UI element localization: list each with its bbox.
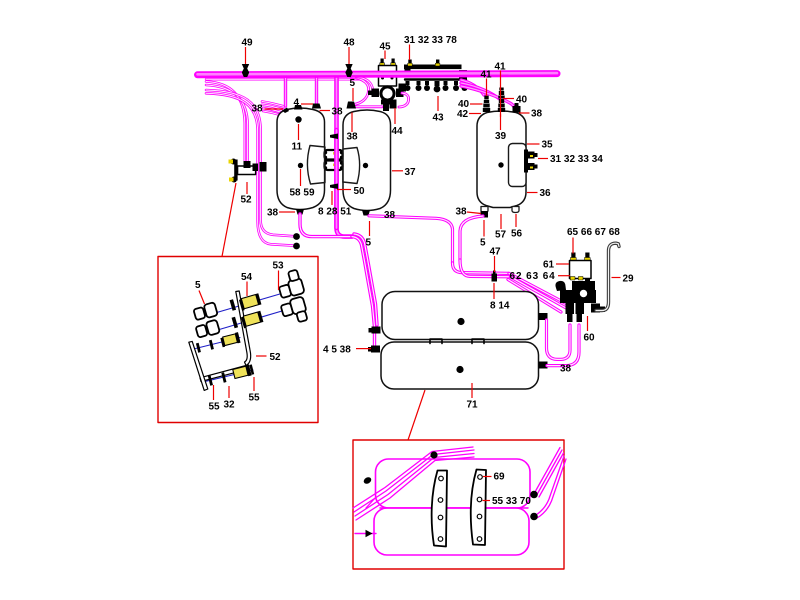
svg-text:5: 5 — [195, 280, 201, 291]
leader i2-55-33-70 — [483, 500, 491, 502]
leader 8-28-51 — [331, 191, 333, 205]
tank 71 lower — [381, 342, 539, 389]
leader 61 — [556, 263, 569, 265]
tank 11 (left reservoir) — [277, 108, 325, 210]
fitting right upper — [530, 491, 538, 499]
svg-text:38: 38 — [267, 208, 279, 219]
svg-text:5: 5 — [480, 238, 486, 249]
LEADERS — [199, 45, 621, 501]
wire curl tube from valve 45 right port — [399, 93, 409, 107]
blue axis A3 — [192, 338, 241, 350]
svg-text:38: 38 — [347, 132, 359, 143]
pipe clamp 48 — [345, 64, 352, 77]
leader 38 tank11 right — [320, 110, 331, 112]
blue axis A1 — [198, 293, 285, 319]
svg-text:37: 37 — [405, 167, 417, 178]
leader 58 — [300, 169, 302, 186]
fitting cluster 31-34 on plate — [524, 150, 538, 173]
wire central tube between tanks down to bottom run — [337, 78, 353, 237]
leader 38 tank39 bottom — [467, 212, 481, 214]
fitting tank 39 bottom-left port — [481, 211, 489, 218]
leader to inset2 — [408, 390, 425, 440]
wire under-pipe thin tube run — [206, 78, 362, 80]
svg-text:49: 49 — [242, 38, 254, 49]
svg-text:32: 32 — [224, 400, 236, 411]
wire under-pipe tube to valve 45 left port — [356, 77, 373, 92]
fitting on left bundle — [363, 476, 373, 485]
clips between tanks 71 — [430, 339, 484, 344]
fitting on tank 37 top left (5/38) — [347, 102, 357, 109]
tee fitting 53 lower — [280, 296, 309, 326]
wire short tube across tank B top — [353, 105, 382, 108]
fitting 38 on tank 39 top right — [513, 103, 521, 113]
svg-text:35: 35 — [542, 140, 554, 151]
svg-text:58 59: 58 59 — [290, 188, 315, 199]
strap 69 right — [471, 470, 486, 546]
leader 49 — [245, 47, 247, 64]
leader 50 — [337, 189, 351, 191]
leader i1-55L — [213, 385, 215, 400]
svg-text:38: 38 — [252, 104, 264, 115]
svg-text:31 32 33 78: 31 32 33 78 — [404, 35, 457, 46]
bracket channel edge — [200, 366, 248, 382]
leader i1-54 — [246, 282, 248, 297]
svg-text:38: 38 — [560, 364, 572, 375]
manifold 43 — [404, 60, 467, 81]
rings and sleeve on axis A4 — [208, 364, 255, 386]
leader 36 — [527, 192, 538, 194]
wire tank 39 bottom tube sweeping down-left — [460, 216, 483, 260]
wire left stub tube with cap — [355, 533, 376, 535]
svg-text:38: 38 — [456, 207, 468, 218]
fitting tank 71 lower left — [368, 346, 380, 353]
leader i2-69 — [483, 476, 492, 478]
svg-text:55: 55 — [249, 393, 261, 404]
strap 69 left — [432, 471, 447, 547]
bracket ear strip — [236, 291, 251, 366]
wire S-curve down to tank 71 left fittings — [352, 234, 377, 327]
big pipe — [198, 73, 558, 75]
port dot tank 39 — [498, 162, 503, 167]
svg-text:55 33 70: 55 33 70 — [492, 496, 531, 507]
wire diagonal tubes to tank A top fittings — [262, 102, 296, 121]
svg-text:47: 47 — [490, 247, 502, 258]
svg-text:38: 38 — [384, 210, 396, 221]
MAIN_ART — [198, 59, 620, 390]
svg-text:4: 4 — [294, 98, 300, 109]
svg-text:5: 5 — [350, 78, 356, 89]
leader 4-5-38 — [356, 348, 371, 350]
wire tube pair B down past bracket to plugged stubs — [206, 90, 293, 246]
leader 38 tank11 bottom — [279, 211, 295, 213]
svg-text:31 32 33 34: 31 32 33 34 — [550, 154, 603, 165]
valve 60-64 cluster — [555, 253, 605, 323]
svg-text:54: 54 — [241, 272, 253, 283]
port dot tank 11 (58) — [298, 163, 303, 168]
leader 41a — [500, 71, 502, 118]
port dot tank 71 upper — [457, 318, 464, 325]
svg-text:60: 60 — [584, 333, 596, 344]
wire vertical drop to tank A left fitting — [284, 78, 287, 107]
svg-text:57: 57 — [495, 230, 507, 241]
strap bolt holes — [438, 475, 482, 542]
leader 56 — [515, 214, 517, 227]
svg-text:41: 41 — [481, 70, 493, 81]
port dot tank 71 lower — [456, 366, 463, 373]
svg-text:5: 5 — [366, 238, 372, 249]
inset box 1 frame — [158, 257, 318, 423]
leader 42 — [469, 113, 481, 115]
fitting 38 on central tube — [330, 134, 338, 140]
inset box 2 frame — [353, 440, 564, 569]
INSET1 — [158, 257, 318, 423]
fitting on tank 11 top left — [282, 108, 289, 114]
fitting 47 on horizontal run — [492, 271, 498, 282]
leader 8-14 — [493, 283, 495, 299]
svg-text:52: 52 — [270, 352, 282, 363]
wire tank 11 bottom tube to lower tanks — [300, 214, 352, 237]
leader i1-32 — [228, 386, 230, 398]
fitting stack 42/40 on tank 39 top — [483, 96, 490, 113]
tank 39 (third reservoir) — [477, 111, 526, 208]
svg-text:45: 45 — [380, 42, 392, 53]
leader i1-55R — [253, 377, 255, 391]
leader 5 below37 — [369, 221, 371, 236]
leader 48 — [348, 47, 350, 64]
leader 11 — [298, 124, 300, 140]
wire tube bundle entering top-left — [353, 447, 474, 520]
leader 5 tank39 bottom — [483, 220, 485, 237]
gray tube 29 — [596, 243, 619, 310]
wire diagonal bundle to valve 60 — [508, 273, 567, 312]
svg-text:61: 61 — [543, 260, 555, 271]
plugged stub caps — [293, 233, 300, 240]
manifold ports row — [405, 81, 468, 92]
blue axis A4 — [205, 370, 253, 382]
fitting on bundle — [430, 451, 437, 458]
leader 44 — [394, 108, 396, 124]
svg-text:71: 71 — [467, 400, 479, 411]
leader 52 main — [246, 182, 248, 194]
fitting 38 on tank 11 top right — [312, 104, 321, 109]
wire tube bundle exiting top-right — [535, 448, 566, 519]
svg-text:38: 38 — [332, 107, 344, 118]
wire S-tube from pipe to tank B top-left fitting — [351, 77, 369, 104]
valve 45 assembly — [368, 59, 404, 112]
cap and nut on axis A2 — [195, 320, 220, 339]
svg-text:41: 41 — [495, 62, 507, 73]
leader 47 — [494, 256, 496, 272]
leader 64 — [558, 275, 570, 277]
fitting tank 37 bottom port — [362, 210, 370, 216]
leader 4 — [301, 103, 313, 105]
leader 37 — [392, 170, 403, 172]
svg-text:62 63 64: 62 63 64 — [510, 271, 556, 282]
svg-text:55: 55 — [209, 402, 221, 413]
svg-text:69: 69 — [494, 472, 506, 483]
leader 5 tank37 — [352, 88, 354, 101]
wire tube valve port to tank71b right fitting — [547, 325, 579, 366]
wire tubes manifold to tank 39 — [461, 80, 515, 110]
fitting stack 39/41 on tank 39 top — [498, 88, 505, 113]
leader to inset1 — [222, 183, 236, 257]
tank 71 lower (top view) — [374, 508, 529, 555]
svg-text:56: 56 — [511, 229, 523, 240]
leader 43 — [437, 96, 439, 111]
bracket left flange — [189, 341, 208, 390]
pipe clamp 49 — [242, 64, 249, 77]
leader 38 tank39 top — [519, 112, 530, 114]
svg-text:65 66 67 68: 65 66 67 68 — [567, 227, 620, 238]
svg-text:40: 40 — [516, 95, 528, 106]
clamp frames between straps (50 hardware) — [324, 147, 343, 184]
link valve45 to manifold — [399, 84, 407, 92]
leader 38 midtube — [351, 113, 353, 133]
leader 40L — [470, 103, 483, 105]
sleeve 54 on A1 — [239, 293, 262, 311]
tank 71 upper (top view) — [376, 459, 531, 508]
svg-text:4 5 38: 4 5 38 — [323, 345, 351, 356]
svg-text:8 14: 8 14 — [490, 301, 510, 312]
leader 65 — [572, 238, 574, 254]
fitting 4 on tank 11 top — [294, 105, 303, 110]
svg-text:48: 48 — [344, 38, 356, 49]
fitting tank 11 bottom port — [296, 209, 304, 215]
leader i1-52 — [256, 355, 267, 357]
leader i1-53 — [278, 271, 280, 291]
fitting tank 71 upper left (4 5 38) — [369, 327, 381, 334]
svg-text:36: 36 — [540, 188, 552, 199]
wire bundle corner to horizontal run — [453, 260, 511, 277]
wire tube pair to bracket 52 (left sweep A) — [206, 82, 248, 162]
cap and nut on axis A1 — [193, 302, 218, 321]
leader 60 — [587, 316, 589, 331]
flange ring left of ear A2 — [232, 317, 238, 329]
flange ring left of ear A1 — [230, 299, 236, 311]
port dot tank 37 — [363, 163, 368, 168]
leader 57 — [500, 214, 502, 229]
tank 39 feet — [481, 207, 488, 213]
strap band on tank 37 left (58) — [343, 148, 360, 184]
tank 37 (second reservoir) — [343, 110, 391, 211]
svg-text:39: 39 — [495, 131, 507, 142]
leader 35 — [527, 143, 540, 145]
rings and sleeve on axis A3 — [196, 332, 241, 353]
tee fitting 53 upper — [275, 269, 304, 299]
svg-text:44: 44 — [392, 126, 404, 137]
svg-text:8 28 51: 8 28 51 — [318, 207, 352, 218]
leader 31 — [409, 45, 411, 61]
fitting 50 on central tube — [330, 184, 338, 190]
wire link between tank71 left fittings — [373, 330, 376, 347]
blue axis A2 — [199, 310, 287, 336]
fitting tank 71 upper right — [539, 313, 548, 320]
fitting tank 71 lower right — [539, 362, 548, 369]
fitting 11 port dot — [295, 116, 301, 122]
leader 40R — [503, 98, 514, 100]
svg-text:29: 29 — [623, 274, 635, 285]
leader 29 — [612, 277, 621, 279]
svg-text:42: 42 — [457, 109, 469, 120]
wire tank 37 bottom tube going right — [369, 216, 453, 263]
leader 38 tank11 left — [265, 108, 284, 110]
sleeve on A2 — [241, 311, 264, 329]
leader 71 — [471, 383, 473, 398]
leader 45 — [384, 51, 386, 60]
svg-text:52: 52 — [241, 195, 253, 206]
wire vertical drop to tank A right fitting — [315, 78, 318, 106]
tank 71 upper — [382, 292, 539, 340]
leader 41b — [486, 79, 488, 97]
bracket 52 — [229, 159, 267, 183]
svg-text:43: 43 — [433, 113, 445, 124]
svg-text:53: 53 — [273, 261, 285, 272]
svg-text:11: 11 — [292, 142, 303, 153]
wire tube between tanks — [380, 507, 528, 509]
strap band on tank 11 right (59) — [307, 146, 325, 185]
leader 39 — [500, 114, 502, 130]
svg-text:38: 38 — [531, 109, 543, 120]
svg-text:50: 50 — [354, 186, 366, 197]
wire central tube overlay through straps — [334, 130, 339, 228]
INSET2 — [353, 440, 566, 569]
fitting right lower — [530, 513, 538, 521]
side plate 35 on tank 39 — [509, 144, 527, 187]
leader 31-34 — [538, 158, 548, 160]
leader i1-5 — [199, 291, 205, 305]
wire U-tube tank71a to valve port — [547, 320, 571, 359]
